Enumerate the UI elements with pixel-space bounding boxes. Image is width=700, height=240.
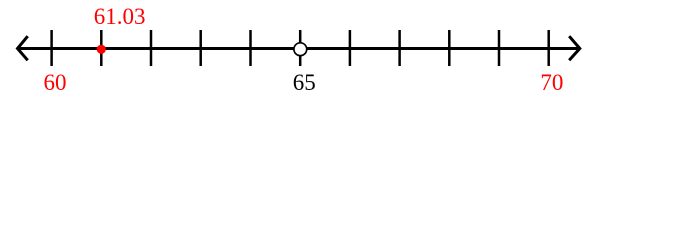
tick 61 <box>100 30 103 66</box>
tick 64 <box>249 30 252 66</box>
tick 65 <box>299 30 302 66</box>
tick 62 <box>150 30 153 66</box>
left arrowhead <box>18 36 28 60</box>
tick 67 <box>398 30 401 66</box>
tick 66 <box>349 30 352 66</box>
tick 68 <box>448 30 451 66</box>
wire: main number line axis <box>18 47 580 50</box>
svg-text:65: 65 <box>293 70 316 95</box>
tick 69 <box>498 30 501 66</box>
tick 70 <box>547 30 550 66</box>
svg-text:60: 60 <box>44 70 67 95</box>
tick 63 <box>199 30 202 66</box>
red point at 61.03 <box>97 45 106 54</box>
tick 60 <box>50 30 53 66</box>
svg-text:70: 70 <box>540 70 563 95</box>
open circle at 65 <box>294 43 307 56</box>
right arrowhead <box>569 36 580 60</box>
svg-text:61.03: 61.03 <box>94 4 146 29</box>
